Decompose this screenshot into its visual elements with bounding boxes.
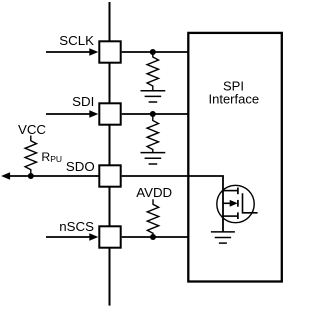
svg-text:nSCS: nSCS: [59, 219, 94, 234]
svg-text:AVDD: AVDD: [136, 185, 172, 200]
pin box SDO: [99, 165, 120, 186]
ground for Q1 source: [211, 232, 235, 243]
resistor R1 pull-down on SCLK: [147, 52, 158, 91]
SCLK input arrow: [46, 48, 98, 55]
resistor R2 pull-down on SDI: [147, 114, 158, 153]
node junction dot nSCS/R3: [150, 234, 156, 240]
svg-text:SCLK: SCLK: [59, 33, 94, 48]
transistor Q1 open-drain NMOS: [217, 185, 254, 222]
resistor R3 pull-up to AVDD on nSCS: [147, 199, 158, 237]
node junction dot SDI/R2: [150, 111, 156, 117]
node junction dot SCLK/R1: [150, 49, 156, 55]
pin box SDI: [99, 103, 120, 124]
wire SCLK row to SPI block: [122, 51, 189, 53]
ground for R2: [141, 153, 166, 164]
ground for R1: [141, 91, 166, 102]
svg-text:Interface: Interface: [209, 92, 260, 107]
pin box SCLK: [99, 41, 120, 62]
nSCS input arrow: [46, 233, 98, 240]
resistor RPU pull-up on SDO: [25, 136, 36, 177]
wire SDI row to SPI block: [122, 113, 189, 115]
svg-text:SDI: SDI: [72, 94, 94, 109]
op-amp U1 SPI Interface block: [188, 33, 281, 282]
wire vertical bus: [109, 2, 111, 306]
wire SDO row to SPI block and MOSFET drain: [122, 176, 223, 232]
SDO output arrow pointing left: [1, 172, 99, 179]
wire Q1 gate lead: [243, 193, 258, 213]
SDI input arrow: [46, 110, 98, 117]
pin box nSCS: [99, 226, 120, 247]
wire nSCS row to SPI block: [122, 236, 189, 238]
node junction dot RPU/SDO: [28, 173, 34, 179]
svg-text:SDO: SDO: [66, 159, 95, 174]
svg-text:VCC: VCC: [18, 122, 46, 137]
